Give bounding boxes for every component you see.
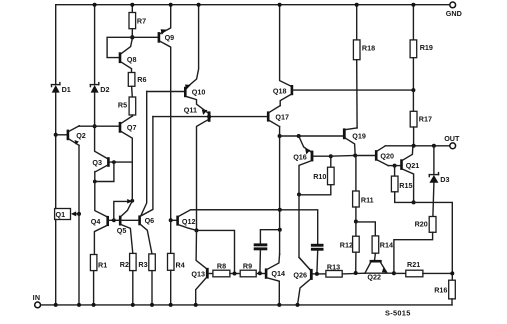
wire Q3 base loop (95, 162, 114, 181)
transistor Q2 (56, 126, 86, 146)
IN terminal (33, 293, 41, 308)
wire Q8 base loop (107, 37, 132, 57)
transistor Q3 (92, 157, 132, 181)
node Q5 collector / Q7 emitter column (130, 199, 134, 203)
resistor R13 (326, 262, 365, 277)
wire D2 down to Q3 collector (95, 93, 108, 159)
wire Q17 emitter row to Q19 base (280, 135, 343, 137)
wire Q16 emitter column down to Q26 collector (299, 195, 310, 270)
node R7 bottom / Q8 collector / Q9 base (130, 35, 134, 39)
node Q16 emitter junction (297, 193, 301, 197)
node rail R2 (131, 303, 135, 307)
svg-text:Q7: Q7 (127, 123, 137, 132)
resistor R6 (128, 73, 146, 98)
wire Q1 to bottom rail (55, 220, 57, 305)
wire Q2 emitter down to rail (78, 145, 80, 305)
node R12 bottom on wire (354, 271, 358, 275)
svg-text:D3: D3 (440, 175, 449, 184)
node C2 bottom / Q26 base (315, 272, 319, 276)
node rail Q26 emitter (296, 303, 300, 307)
node C1 top on main column (278, 228, 282, 232)
node Q9 collector / Q12 base / R4 (169, 218, 173, 222)
svg-text:Q21: Q21 (406, 161, 420, 170)
transistor Q14 (265, 254, 285, 305)
svg-text:R21: R21 (407, 260, 420, 269)
svg-text:Q9: Q9 (165, 33, 175, 42)
svg-text:Q13: Q13 (191, 270, 205, 279)
resistor R12 (340, 236, 359, 273)
svg-text:R2: R2 (120, 260, 129, 269)
node Q12 emitter junction (195, 228, 199, 232)
transistor Q20 (375, 146, 394, 166)
svg-text:IN: IN (33, 293, 41, 302)
node D2 top rail (93, 3, 97, 7)
transistor Q16 (293, 136, 331, 195)
node Q19 emitter / R11 top (353, 154, 357, 158)
bottom rail wire (input net) (41, 304, 452, 306)
wire R11 node to R14 top (356, 222, 375, 236)
svg-text:Q22: Q22 (367, 272, 381, 281)
svg-text:Q8: Q8 (127, 55, 137, 64)
transistor Q6 (138, 92, 154, 254)
resistor R1 (90, 255, 107, 305)
node Q3 base loop (112, 160, 116, 164)
node Q20 emitter / Q21 base / R15 (393, 164, 397, 168)
node rail R7 (130, 3, 134, 7)
svg-text:R4: R4 (176, 260, 185, 269)
svg-text:R13: R13 (327, 262, 340, 271)
svg-text:Q26: Q26 (293, 271, 307, 280)
svg-text:Q20: Q20 (380, 151, 394, 160)
wire Q2 collector to Q7 base (79, 125, 119, 127)
node OUT wire / R17 / Q21 collector (412, 144, 416, 148)
wire rail to Q10 collector (187, 5, 199, 88)
transistor Q26 (293, 257, 326, 305)
GND terminal (446, 2, 462, 18)
svg-text:Q16: Q16 (293, 153, 307, 162)
resistor R20 (394, 217, 436, 273)
resistor R17 (410, 90, 432, 146)
node rail R1 (92, 303, 96, 307)
svg-text:Q2: Q2 (76, 131, 86, 140)
svg-text:Q10: Q10 (192, 88, 206, 97)
svg-text:Q17: Q17 (275, 112, 289, 121)
transistor Q1 (box symbol) (55, 209, 79, 220)
node rail Q2 emitter (77, 303, 81, 307)
svg-text:R3: R3 (138, 260, 147, 269)
svg-text:R17: R17 (419, 115, 432, 124)
resistor R21 (394, 260, 452, 277)
transistor Q7 (119, 116, 137, 201)
svg-text:Q19: Q19 (352, 131, 366, 140)
svg-text:Q18: Q18 (273, 86, 287, 95)
schematic number S-5015 (385, 308, 411, 317)
node Q4/Q5 base loop (112, 218, 116, 222)
svg-text:D2: D2 (100, 85, 109, 94)
svg-text:OUT: OUT (444, 134, 460, 143)
resistor R5 (118, 97, 136, 116)
transistor Q22 (365, 260, 394, 281)
resistor R3 (138, 254, 155, 305)
node R11 bottom / R12 / R14 (354, 220, 358, 224)
resistor R14 (372, 236, 393, 260)
node rail Q18 collector (278, 3, 282, 7)
node Q17 emitter junction (278, 134, 282, 138)
svg-text:D1: D1 (62, 85, 71, 94)
node Q12 collector / column (278, 208, 282, 212)
node Q1 gate tap (77, 212, 81, 216)
svg-text:R6: R6 (137, 75, 146, 84)
resistor R16 (434, 280, 455, 305)
svg-text:Q4: Q4 (91, 217, 101, 226)
svg-text:R20: R20 (415, 219, 428, 228)
node R19 bottom / Q18 base (411, 88, 415, 92)
wire Q19 emitter row to Q20 base (355, 155, 375, 157)
transistor Q4 (91, 216, 119, 255)
resistor R15 (391, 166, 413, 203)
svg-text:GND: GND (446, 9, 462, 18)
resistor R11 (353, 156, 374, 237)
transistor Q9 (132, 5, 174, 221)
wire Q5/Q6 base (122, 219, 139, 221)
resistor R9 (240, 262, 265, 277)
svg-text:R7: R7 (137, 17, 146, 26)
svg-text:R12: R12 (340, 241, 353, 250)
node R8/R9 junction (233, 272, 237, 276)
capacitor C2 (191, 210, 324, 274)
node Q3 emitter junction (93, 180, 97, 184)
node R15 / Q21 emitter junction (412, 200, 416, 204)
wire emitter node to output column (414, 202, 453, 280)
svg-text:Q6: Q6 (145, 216, 155, 225)
transistor Q12 (171, 210, 280, 231)
transistor Q8 (119, 40, 137, 73)
node D2 column / Q2-Q7 wire (93, 124, 97, 128)
svg-text:Q1: Q1 (56, 210, 66, 219)
OUT terminal (444, 134, 460, 149)
wire Q16 base row to Q19 emitter node (331, 155, 355, 158)
svg-text:S-5015: S-5015 (385, 308, 411, 317)
transistor Q5 (117, 201, 133, 254)
transistor Q19 (343, 128, 366, 156)
transistor Q11 (184, 105, 211, 230)
node rail Q14 emitter (277, 303, 281, 307)
node rail Q10 (197, 3, 201, 7)
node Q16 collector tap (297, 134, 301, 138)
wire base loop up to Q5 collector node (114, 199, 132, 220)
svg-text:R11: R11 (361, 196, 374, 205)
transistor Q21 (388, 146, 419, 203)
wire OUT row (385, 145, 449, 147)
node OUT wire / D3 (432, 144, 436, 148)
svg-text:Q12: Q12 (182, 217, 196, 226)
svg-text:Q11: Q11 (184, 105, 197, 114)
svg-text:Q14: Q14 (271, 269, 285, 278)
transistor Q13 (191, 230, 208, 305)
transistor Q18 (273, 85, 414, 106)
resistor R2 (120, 253, 136, 305)
wire Q3 emitter column to Q4 collector (95, 182, 107, 217)
svg-text:R16: R16 (434, 285, 447, 294)
wire Q12 emitter to R8/R9 node (197, 230, 235, 273)
resistor R19 (410, 5, 433, 90)
node Q11 bar (207, 115, 211, 119)
node rail Q9 emitter (169, 3, 173, 7)
wire D1 to Q2 tap to Q1 (55, 93, 57, 209)
node Q2 base tap (54, 133, 58, 137)
svg-text:R9: R9 (243, 262, 252, 271)
resistor R4 (168, 220, 185, 305)
svg-text:R18: R18 (362, 44, 375, 53)
node Q22 / R20 / R21 junction (392, 271, 396, 275)
diode D2 (90, 5, 109, 95)
node rail D1 column (54, 303, 58, 307)
resistor R18 (353, 5, 375, 128)
svg-text:R14: R14 (380, 241, 393, 250)
node rail R18 (355, 3, 359, 7)
svg-text:R19: R19 (420, 43, 433, 52)
node rail R19 (411, 3, 415, 7)
wire Q11 base row (to Q17 base) (153, 116, 267, 118)
node R10 top (329, 154, 333, 158)
resistor R8 (209, 262, 241, 277)
transistor Q17 (267, 106, 289, 127)
svg-text:R8: R8 (217, 262, 226, 271)
svg-text:R10: R10 (313, 172, 326, 181)
node rail R4 (169, 303, 173, 307)
top rail wire (56, 5, 450, 84)
node output column R21 (450, 271, 454, 275)
resistor R10 (313, 156, 334, 195)
node C1 bottom junction (258, 271, 262, 275)
svg-text:Q3: Q3 (92, 158, 102, 167)
capacitor C1 (254, 230, 280, 274)
transistor Q10 (147, 85, 208, 113)
main column Q18/Q17/Q14 (x=279.6) (280, 5, 291, 254)
diode D3 (429, 146, 449, 217)
svg-text:R15: R15 (399, 181, 412, 190)
diode D1 (52, 83, 71, 95)
svg-text:Q5: Q5 (117, 226, 127, 235)
svg-text:R1: R1 (98, 260, 107, 269)
resistor R7 (129, 5, 146, 38)
svg-text:R5: R5 (118, 101, 127, 110)
node rail R3 (150, 303, 154, 307)
node rail Q13 emitter (194, 303, 198, 307)
wire Q16 emitter to R10 bottom (299, 194, 331, 196)
